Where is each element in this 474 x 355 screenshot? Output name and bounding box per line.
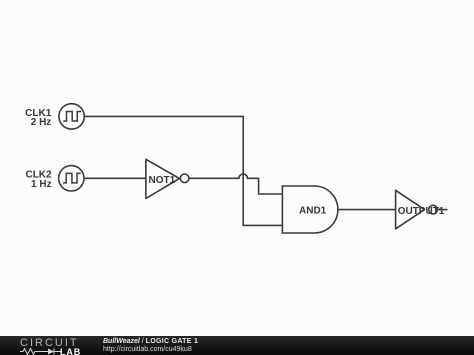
svg-text:NOT1: NOT1 — [149, 175, 176, 186]
svg-text:2 Hz: 2 Hz — [31, 117, 52, 128]
svg-text:AND1: AND1 — [299, 205, 327, 216]
svg-text:1 Hz: 1 Hz — [31, 179, 52, 190]
svg-text:OUTPUT1: OUTPUT1 — [398, 206, 445, 217]
